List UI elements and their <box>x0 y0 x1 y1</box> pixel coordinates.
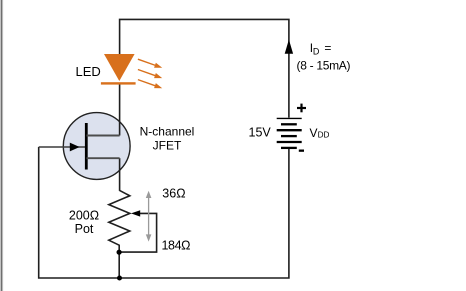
svg-text:36Ω: 36Ω <box>162 186 185 200</box>
svg-text:LED: LED <box>76 64 101 79</box>
svg-text:(8 - 15mA): (8 - 15mA) <box>297 59 351 73</box>
svg-text:200Ω: 200Ω <box>69 209 99 223</box>
svg-text:D: D <box>313 46 320 56</box>
svg-text:V: V <box>310 126 318 140</box>
svg-text:Pot: Pot <box>75 222 94 236</box>
svg-text:15V: 15V <box>249 126 272 140</box>
svg-text:184Ω: 184Ω <box>162 239 191 253</box>
svg-text:N-channel: N-channel <box>140 125 195 139</box>
svg-text:JFET: JFET <box>153 139 182 153</box>
svg-text:DD: DD <box>318 130 330 139</box>
svg-text:=: = <box>324 41 331 55</box>
